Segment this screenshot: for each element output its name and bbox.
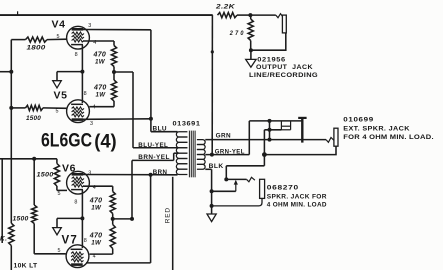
ext speaker jack 010699 barrel xyxy=(334,128,338,146)
wire spkr jack tip contact xyxy=(226,178,246,180)
svg-text:4 OHM MIN. LOAD: 4 OHM MIN. LOAD xyxy=(267,202,327,209)
wire ext jack sleeve return xyxy=(264,146,336,154)
node dot shunt top xyxy=(268,119,272,123)
svg-text:BRN-YEL: BRN-YEL xyxy=(138,155,170,161)
wire shunt lower stub xyxy=(264,129,281,131)
node dot sleeve junction (diamond) xyxy=(262,152,267,157)
wire plate junction to BLU tap xyxy=(150,119,152,132)
svg-text:FOR 4 OHM MIN. LOAD.: FOR 4 OHM MIN. LOAD. xyxy=(343,134,434,141)
svg-text:2.2K: 2.2K xyxy=(215,4,236,11)
resistor 470 1W no.3 xyxy=(110,192,115,214)
wire divider to output jack tip xyxy=(250,14,275,16)
wire spkr jack sleeve return xyxy=(212,198,262,206)
wire cathode junction to ground stub xyxy=(57,71,82,73)
svg-text:470: 470 xyxy=(93,84,107,91)
wire RED lead xyxy=(172,177,174,270)
svg-text:470: 470 xyxy=(89,197,103,204)
junction tick on top bus xyxy=(17,11,19,15)
svg-text:3: 3 xyxy=(88,171,91,177)
node dot on left rail at y71.7 xyxy=(9,70,13,74)
wire output jack sleeve return xyxy=(251,33,286,50)
svg-text:EXT. SPKR. JACK: EXT. SPKR. JACK xyxy=(343,125,410,132)
node dot 470 junction a xyxy=(111,217,115,221)
wire ext jack tip hook xyxy=(326,138,334,143)
wire BLK tap to lower ground rail xyxy=(205,168,211,170)
svg-text:SPKR. JACK FOR: SPKR. JACK FOR xyxy=(267,193,327,200)
wire V4 plate pin3 to plate bus xyxy=(83,29,151,31)
wire stub to left edge at y71.7 xyxy=(0,71,11,73)
node dot cathode junction V4V5 xyxy=(80,70,84,74)
resistor 10K left rail xyxy=(9,223,14,245)
node dot divider xyxy=(248,13,252,17)
ground symbol V6V7 cathode xyxy=(53,228,62,235)
transformer primary winding xyxy=(176,132,187,137)
wire small left edge vertical xyxy=(1,159,3,243)
resistor 2.2K xyxy=(218,13,238,18)
tube V5 (6L6GC) xyxy=(67,100,90,123)
resistor 1500 (V6 grid stopper) xyxy=(56,159,58,164)
tube V6 (6L6GC) xyxy=(67,171,90,194)
wire sleeve node vertical xyxy=(263,130,265,166)
svg-text:5: 5 xyxy=(57,34,60,40)
node dot lower rail b xyxy=(210,204,214,208)
wire 470 junction to BRN-YEL dropper xyxy=(113,218,132,220)
node dot lower rail a xyxy=(210,189,214,193)
wire GRN tap to ext jack tip xyxy=(205,139,326,141)
svg-text:1W: 1W xyxy=(91,239,102,246)
svg-text:5: 5 xyxy=(58,191,61,197)
svg-text:4: 4 xyxy=(93,105,96,111)
node dot on upper rail xyxy=(211,50,214,53)
svg-text:(4): (4) xyxy=(94,130,117,152)
ground symbol V4V5 cathode xyxy=(53,81,62,88)
shorting contact block xyxy=(280,121,282,130)
svg-text:8: 8 xyxy=(84,91,87,97)
transformer secondary winding xyxy=(197,140,205,145)
ground symbol output jack xyxy=(246,59,256,67)
node dot GRN-YEL at upper ground rail xyxy=(210,153,214,157)
wire V5 plate pin3 to plate bus xyxy=(83,118,151,121)
svg-text:8: 8 xyxy=(75,52,78,58)
wire upper rail from 2.2K node down to GRN-YEL xyxy=(211,15,213,155)
svg-text:RED: RED xyxy=(164,207,171,223)
tube V7 (6L6GC) xyxy=(66,245,89,268)
svg-text:1W: 1W xyxy=(91,204,102,211)
wire GRN-YEL tap xyxy=(205,154,249,156)
svg-text:K.: K. xyxy=(0,235,7,242)
transformer core xyxy=(188,131,190,178)
svg-text:470: 470 xyxy=(89,232,103,239)
wire GRN-YEL to ext jack shunt contact xyxy=(249,120,301,122)
wire V4 cathode to V5 cathode xyxy=(81,45,83,103)
wire V4 screen pin4 to 470 resistor xyxy=(83,40,114,42)
wire V7 grid rail vertical xyxy=(33,159,35,205)
speaker jack 068270 barrel xyxy=(260,179,265,198)
node dot plate junction V4V5 xyxy=(149,117,153,121)
svg-text:1500: 1500 xyxy=(37,171,54,178)
wire screens junction to BLU-YEL dropper xyxy=(114,71,133,73)
svg-text:8: 8 xyxy=(84,238,87,244)
node dot cathode junction V6V7 xyxy=(80,216,84,220)
ext jack plug blade xyxy=(301,118,303,143)
svg-text:V5: V5 xyxy=(54,90,68,102)
wire sleeve junction to spkr jack contact xyxy=(226,165,264,167)
svg-text:1W: 1W xyxy=(95,59,106,66)
svg-text:470: 470 xyxy=(93,52,107,59)
node dot switch link mid xyxy=(268,128,272,132)
wire V6 screen pin4 to 470 resistor xyxy=(83,185,113,187)
svg-text:4: 4 xyxy=(93,254,96,260)
node dot on left rail at y107.9 xyxy=(9,106,13,110)
resistor 470 1W no.2 xyxy=(113,72,115,80)
wire plate bus vertical V4V5 xyxy=(150,30,152,119)
svg-text:1500: 1500 xyxy=(26,115,41,122)
wire cathode junction to ground stub lower xyxy=(57,217,82,219)
svg-text:V4: V4 xyxy=(52,19,66,31)
tube V4 (6L6GC) xyxy=(67,26,90,49)
svg-text:5: 5 xyxy=(56,109,59,115)
wire BRN-YEL dropper vertical xyxy=(131,160,133,219)
wire switch link vertical xyxy=(269,121,271,140)
wire BLU-YEL tap xyxy=(133,147,178,149)
wire to output ground xyxy=(250,50,252,59)
svg-text:GRN: GRN xyxy=(216,134,232,140)
wire left rail vertical (grid bias feed) xyxy=(10,40,12,224)
svg-text:1800: 1800 xyxy=(27,45,46,52)
wire plate bus vertical V6V7 xyxy=(150,175,152,263)
resistor 470 1W no.1 xyxy=(111,46,116,67)
output jack 021956 barrel xyxy=(282,15,286,33)
svg-text:1500: 1500 xyxy=(13,216,29,223)
svg-text:BRN: BRN xyxy=(153,170,168,176)
wire V6 cathode to V7 cathode xyxy=(81,190,83,248)
wire grid bus lower horizontal xyxy=(0,158,57,160)
svg-text:3: 3 xyxy=(88,23,91,29)
svg-text:LINE/RECORDING: LINE/RECORDING xyxy=(249,72,318,79)
resistor 1500 (V5 grid stopper) xyxy=(11,107,25,109)
svg-text:3: 3 xyxy=(90,121,93,127)
wire V6 plate pin3 to BRN tap xyxy=(83,174,178,176)
svg-text:BLU: BLU xyxy=(153,126,168,132)
node dot screens junction xyxy=(112,70,116,74)
svg-text:010699: 010699 xyxy=(343,117,374,124)
wire top bus from left edge to 2.2K node xyxy=(0,14,213,16)
resistor 270 xyxy=(248,19,253,41)
svg-text:10K LT: 10K LT xyxy=(14,263,38,270)
node dot lower grid bus xyxy=(32,157,36,161)
node dot 470 junction b xyxy=(130,217,134,221)
node dot jack return xyxy=(249,48,253,52)
svg-text:8: 8 xyxy=(74,199,77,205)
svg-text:5: 5 xyxy=(58,248,61,254)
svg-text:OUTPUT JACK: OUTPUT JACK xyxy=(256,64,313,71)
svg-text:1W: 1W xyxy=(96,91,107,98)
node dot plate junction V6V7 xyxy=(149,173,153,177)
switch arrow spkr jack xyxy=(235,184,237,192)
svg-text:2 7 0: 2 7 0 xyxy=(229,30,244,37)
svg-text:013691: 013691 xyxy=(173,121,201,128)
resistor 1500 (V7 grid stopper) xyxy=(32,205,37,224)
svg-text:068270: 068270 xyxy=(267,184,299,191)
svg-text:021956: 021956 xyxy=(257,56,286,63)
resistor 470 1W no.4 xyxy=(112,219,114,225)
node dot GRN at switch vertical xyxy=(268,138,272,142)
resistor 1800 (V4 grid stopper) xyxy=(11,39,25,41)
ground symbol secondary common xyxy=(207,214,216,222)
node dot spkr contact xyxy=(224,177,228,181)
svg-text:6L6GC: 6L6GC xyxy=(41,129,92,151)
